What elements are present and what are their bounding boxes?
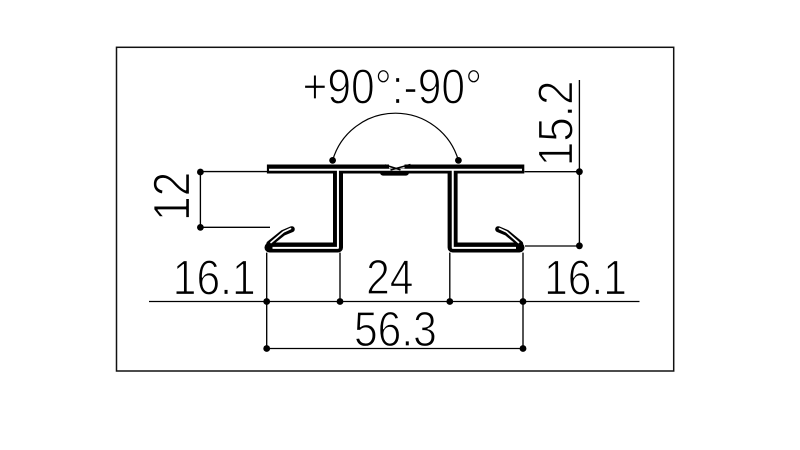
dim 12 dot top bbox=[197, 169, 204, 176]
ground line dot 4 bbox=[520, 298, 527, 305]
flange white core bbox=[269, 169, 522, 171]
dim 12 dot bottom bbox=[197, 224, 204, 231]
dim 12 bottom extension line bbox=[200, 226, 270, 228]
right leg + bottom-right web black bbox=[453, 170, 520, 248]
dim 15.2 vertical line bbox=[578, 80, 580, 246]
extension line inner right bbox=[449, 253, 451, 302]
svg-text:24: 24 bbox=[366, 249, 413, 305]
dim 56.3 line bbox=[267, 348, 523, 350]
hinge notch gap in flange top line bbox=[389, 164, 405, 169]
top flange (hollow bar) black bbox=[267, 165, 524, 174]
right leg white core bbox=[453, 169, 516, 248]
dim 12 vertical line bbox=[199, 172, 201, 227]
hinge notch diagonal left bbox=[385, 165, 401, 170]
ground dimension line bbox=[149, 301, 640, 303]
svg-text:15.2: 15.2 bbox=[528, 81, 583, 167]
arc end dot left bbox=[329, 157, 336, 164]
svg-text:16.1: 16.1 bbox=[173, 249, 256, 305]
svg-text:56.3: 56.3 bbox=[354, 301, 437, 357]
dim 15.2 bottom extension line bbox=[525, 245, 579, 247]
left hook white core bbox=[271, 229, 291, 243]
right hook (clip finger) black bbox=[498, 229, 520, 244]
svg-text:+90°:-90°: +90°:-90° bbox=[303, 58, 483, 114]
hinge knuckle blob bbox=[383, 170, 406, 176]
dim 56.3 dot right bbox=[520, 345, 527, 352]
dim 12 top extension line bbox=[200, 171, 267, 173]
left leg white core bbox=[273, 169, 338, 248]
svg-text:12: 12 bbox=[144, 172, 201, 221]
right hook white core bbox=[500, 229, 519, 243]
extension line outer right bbox=[522, 253, 524, 349]
dim 15.2 dot top bbox=[576, 168, 583, 175]
angle arc bbox=[333, 113, 459, 160]
border frame bbox=[117, 47, 674, 371]
arc end dot right bbox=[455, 157, 462, 164]
ground line dot 2 bbox=[337, 298, 344, 305]
ground line dot 1 bbox=[263, 298, 270, 305]
svg-text:16.1: 16.1 bbox=[544, 249, 627, 305]
left leg + bottom-left web black bbox=[270, 170, 339, 248]
extension line outer left bbox=[266, 253, 268, 349]
extension line inner left bbox=[339, 253, 341, 302]
dim 56.3 dot left bbox=[263, 345, 270, 352]
dim 15.2 dot bottom bbox=[576, 242, 583, 249]
left hook (clip finger) black bbox=[269, 229, 292, 244]
dim 15.2 top extension line bbox=[525, 171, 580, 173]
ground line dot 3 bbox=[446, 298, 453, 305]
hinge notch diagonal right bbox=[391, 165, 411, 171]
